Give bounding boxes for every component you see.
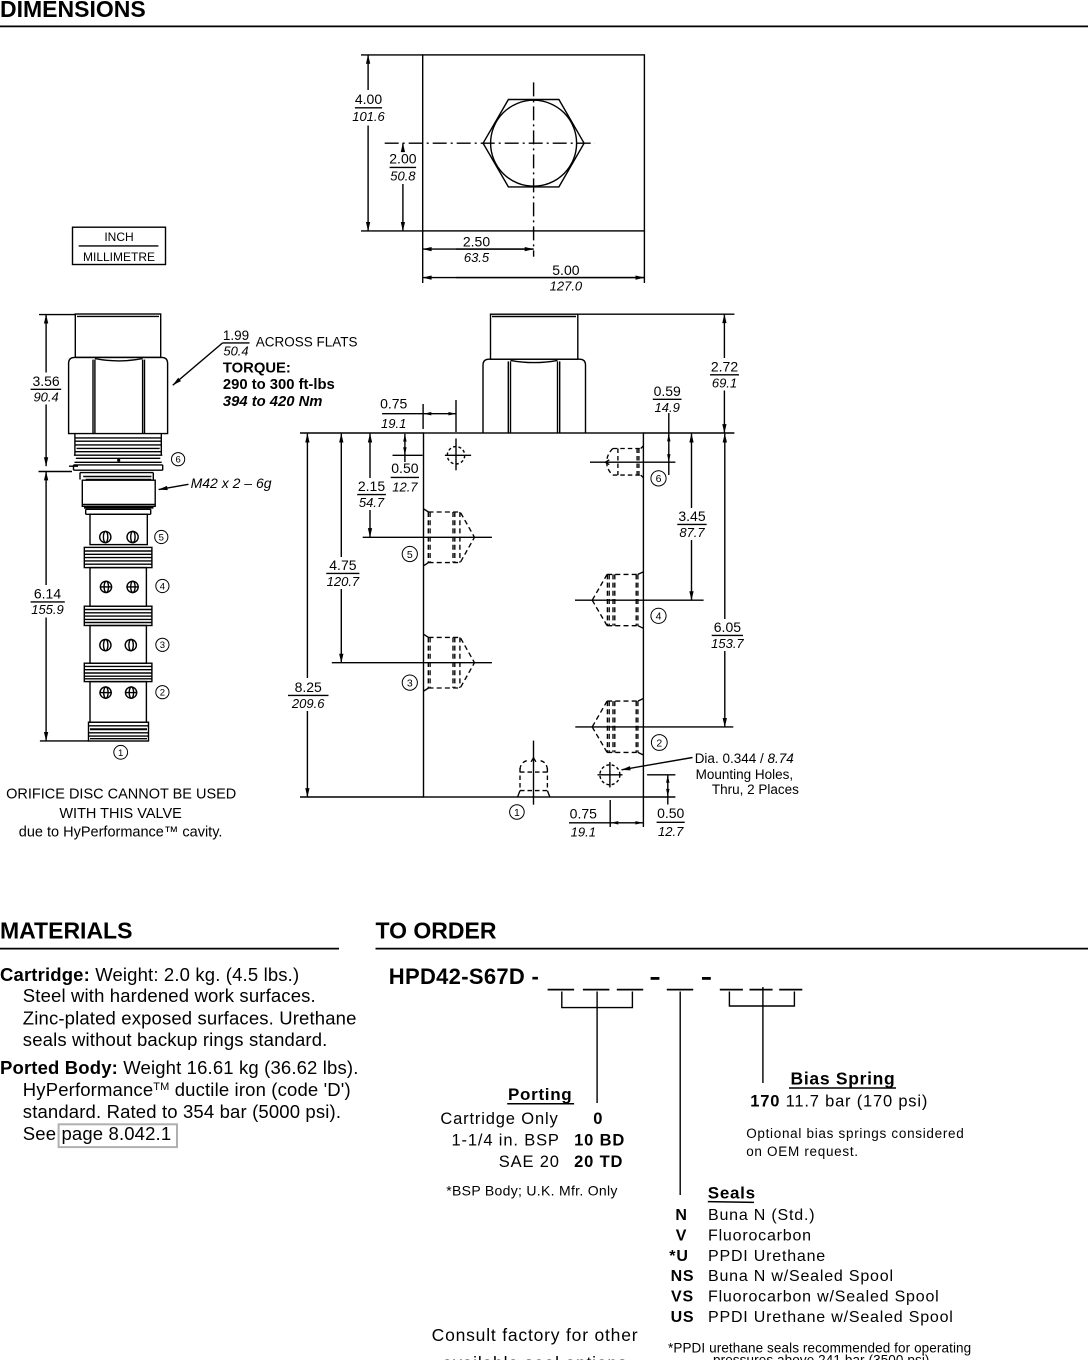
- cartridge ring group between 5 and 4: [84, 547, 152, 567]
- circled port numbers on cartridge: [114, 453, 185, 760]
- svg-text:0.59: 0.59: [654, 383, 681, 399]
- svg-text:1: 1: [118, 748, 123, 759]
- svg-text:NS: NS: [671, 1268, 695, 1285]
- svg-text:0: 0: [593, 1110, 603, 1128]
- cartridge port 2 section: [90, 682, 146, 723]
- extension line cap top right: [578, 313, 735, 315]
- dim 2.72/69.1 line: [723, 314, 725, 358]
- extension lines below block: [422, 231, 424, 283]
- extension line body top left: [300, 432, 424, 434]
- port 6 (right top, small): [607, 449, 641, 476]
- cartridge seal groove band: [76, 457, 160, 459]
- svg-text:due to HyPerformance™ cavity.: due to HyPerformance™ cavity.: [19, 824, 223, 840]
- svg-text:Ported Body: Weight 16.61 kg (: Ported Body: Weight 16.61 kg (36.62 lbs)…: [0, 1057, 359, 1078]
- cartridge port 3 section: [90, 626, 146, 664]
- svg-text:14.9: 14.9: [655, 400, 680, 415]
- svg-text:3: 3: [407, 677, 413, 689]
- top view: plug circle (across flats): [491, 100, 577, 186]
- svg-text:90.4: 90.4: [33, 390, 58, 405]
- svg-text:Optional bias springs consider: Optional bias springs considered: [746, 1126, 964, 1141]
- svg-text:0.75: 0.75: [380, 396, 407, 412]
- svg-text:SAE 20: SAE 20: [499, 1153, 560, 1171]
- svg-text:2.50: 2.50: [463, 233, 490, 249]
- svg-text:5.00: 5.00: [552, 262, 579, 278]
- body hex nut: [483, 359, 586, 433]
- svg-text:19.1: 19.1: [381, 416, 406, 431]
- svg-text:10 BD: 10 BD: [574, 1132, 625, 1150]
- svg-text:6.05: 6.05: [714, 619, 741, 635]
- port 5 (left, SAE plug): [428, 512, 474, 563]
- svg-text:M42 x 2 – 6g: M42 x 2 – 6g: [191, 475, 272, 491]
- svg-text:3.45: 3.45: [678, 508, 705, 524]
- cross-drilled holes port 5: [100, 531, 111, 542]
- port 3 (left, SAE plug): [428, 637, 474, 688]
- leader 1.99 ACROSS FLATS: [223, 342, 250, 344]
- cartridge nose rings: [89, 722, 149, 741]
- svg-text:Cartridge: Weight: 2.0 kg. (4.: Cartridge: Weight: 2.0 kg. (4.5 lbs.): [0, 964, 299, 985]
- bracket porting group: [562, 992, 633, 1008]
- body cap: [491, 314, 578, 359]
- cartridge dimensions and labels: [31, 315, 250, 741]
- extension line hole center level (for 0.50): [393, 454, 423, 456]
- dim 3.56/90.4 line: [45, 315, 47, 373]
- svg-text:ACROSS FLATS: ACROSS FLATS: [256, 334, 358, 349]
- dim 8.25/209.6 line: [306, 434, 308, 678]
- extension lines for 4.00 dim: [361, 54, 423, 56]
- port 4 (right, large): [592, 574, 638, 625]
- svg-text:12.7: 12.7: [392, 480, 418, 495]
- circled port numbers on body: [402, 471, 667, 820]
- svg-text:2.72: 2.72: [711, 358, 738, 374]
- svg-text:170 11.7 bar (170 psi): 170 11.7 bar (170 psi): [750, 1093, 928, 1111]
- port 2 center line: [575, 726, 733, 728]
- svg-text:69.1: 69.1: [712, 375, 737, 390]
- svg-text:6: 6: [656, 473, 662, 485]
- svg-text:MILLIMETRE: MILLIMETRE: [83, 250, 155, 264]
- svg-text:209.6: 209.6: [291, 696, 325, 711]
- svg-text:2.15: 2.15: [358, 478, 385, 494]
- dim 0.75/19.1 top: bar and line: [382, 413, 456, 415]
- svg-text:2.00: 2.00: [389, 151, 416, 167]
- svg-text:120.7: 120.7: [327, 574, 360, 589]
- svg-text:1.99: 1.99: [223, 328, 249, 343]
- seals option rows: [669, 1207, 953, 1326]
- cross-drilled holes port 4: [100, 581, 111, 592]
- dash separator 2: [702, 977, 711, 980]
- port 5 center line: [363, 536, 492, 538]
- svg-text:TORQUE:: TORQUE:: [223, 361, 291, 377]
- port 3 center line: [332, 662, 492, 664]
- M42 thread collar: [82, 480, 155, 506]
- rule under MATERIALS: [0, 948, 339, 950]
- port 1 center line: [533, 741, 535, 805]
- svg-text:DIMENSIONS: DIMENSIONS: [0, 0, 146, 22]
- svg-text:4.75: 4.75: [329, 557, 356, 573]
- svg-text:standard. Rated to 354 bar (50: standard. Rated to 354 bar (5000 psi).: [23, 1101, 341, 1122]
- svg-text:PPDI Urethane w/Sealed Spool: PPDI Urethane w/Sealed Spool: [708, 1309, 954, 1326]
- svg-text:6.14: 6.14: [34, 585, 61, 601]
- svg-text:Steel with hardened work surfa: Steel with hardened work surfaces.: [23, 985, 316, 1006]
- svg-text:INCH: INCH: [104, 230, 133, 244]
- svg-text:N: N: [675, 1207, 687, 1224]
- bracket bias spring group: [729, 992, 794, 1007]
- svg-text:54.7: 54.7: [359, 495, 385, 510]
- svg-text:1: 1: [514, 807, 520, 819]
- cartridge port 5 section: [90, 514, 147, 544]
- svg-text:WITH THIS VALVE: WITH THIS VALVE: [59, 806, 182, 822]
- cartridge ring group between 4 and 3: [84, 606, 152, 625]
- svg-text:VS: VS: [671, 1289, 694, 1306]
- svg-text:155.9: 155.9: [31, 602, 64, 617]
- porting rows: [440, 1110, 625, 1171]
- dim 0.50/12.7 left line: [404, 434, 406, 462]
- dim 2.15/54.7 line: [369, 434, 371, 478]
- dimension 5.00/127.0 line with arrows: [423, 277, 645, 279]
- dimension 4.00/101.6 line with arrows: [367, 55, 369, 90]
- svg-text:63.5: 63.5: [464, 250, 490, 265]
- svg-text:2: 2: [656, 737, 662, 749]
- dim 6.14/155.9 line: [45, 472, 47, 586]
- body dimension texts: [291, 358, 745, 839]
- body outline: [424, 433, 644, 797]
- svg-text:0.50: 0.50: [391, 460, 418, 476]
- cartridge port 4 section: [90, 568, 146, 607]
- svg-text:Mounting Holes,: Mounting Holes,: [696, 767, 794, 782]
- svg-text:*U: *U: [669, 1248, 688, 1265]
- svg-text:TO ORDER: TO ORDER: [376, 918, 497, 944]
- svg-text:87.7: 87.7: [679, 525, 705, 540]
- dim 0.59/14.9 line: [653, 398, 682, 400]
- leader M42 x 2 - 6g: [159, 484, 189, 489]
- dim 3.45/87.7 line: [691, 434, 693, 508]
- cartridge ring group between 3 and 2: [84, 663, 152, 681]
- svg-text:0.75: 0.75: [570, 805, 597, 821]
- port 6 center line: [590, 461, 675, 463]
- svg-text:HPD42-S67D -: HPD42-S67D -: [389, 964, 539, 989]
- dim 6.05/153.7 line: [724, 434, 726, 619]
- svg-text:HyPerformanceTM ductile iron (: HyPerformanceTM ductile iron (code 'D'): [23, 1079, 351, 1100]
- svg-text:Dia. 0.344 / 8.74: Dia. 0.344 / 8.74: [695, 751, 794, 766]
- order code underscores group 1: [548, 989, 575, 991]
- svg-text:1-1/4 in. BSP: 1-1/4 in. BSP: [452, 1132, 560, 1150]
- svg-text:5: 5: [407, 549, 413, 561]
- extension line body bottom right: [643, 796, 675, 798]
- order code underscore group 2: [667, 989, 693, 991]
- extension line body top right: [643, 432, 734, 434]
- svg-text:*BSP Body; U.K. Mfr. Only: *BSP Body; U.K. Mfr. Only: [446, 1182, 617, 1198]
- svg-text:Fluorocarbon w/Sealed Spool: Fluorocarbon w/Sealed Spool: [708, 1289, 940, 1306]
- svg-text:4.00: 4.00: [355, 91, 382, 107]
- svg-text:Seals: Seals: [708, 1184, 756, 1203]
- svg-text:2: 2: [160, 688, 165, 699]
- svg-text:101.6: 101.6: [352, 109, 385, 124]
- cartridge top cap: [75, 314, 160, 357]
- svg-text:19.1: 19.1: [571, 824, 596, 839]
- svg-text:MATERIALS: MATERIALS: [0, 918, 132, 944]
- dim 6.14/155.9 extension lines: [39, 471, 73, 473]
- dim 3.56/90.4 extension lines: [39, 314, 75, 316]
- center dot on seal band: [117, 459, 120, 462]
- svg-text:8.25: 8.25: [295, 679, 322, 695]
- svg-text:3: 3: [160, 640, 165, 651]
- svg-text:PPDI Urethane: PPDI Urethane: [708, 1248, 826, 1265]
- mounting hole top-left: [447, 447, 464, 464]
- order code underscores group 3: [720, 989, 743, 991]
- svg-text:153.7: 153.7: [711, 636, 744, 651]
- port 2 (right bottom, large): [592, 701, 638, 752]
- port 1 (bottom, small): [520, 760, 547, 790]
- dash separator 1: [651, 977, 660, 980]
- top view: vertical center line: [533, 82, 535, 256]
- svg-text:Buna N w/Sealed Spool: Buna N w/Sealed Spool: [708, 1268, 894, 1285]
- dimension 2.00/50.8 line with arrows: [402, 143, 404, 150]
- cross-drilled holes port 2: [100, 687, 111, 698]
- svg-text:5: 5: [159, 532, 164, 543]
- cartridge thread rings: [74, 434, 76, 456]
- svg-text:4: 4: [160, 581, 165, 592]
- svg-text:Porting: Porting: [508, 1085, 572, 1104]
- svg-text:50.8: 50.8: [390, 169, 416, 184]
- svg-text:4: 4: [656, 611, 662, 623]
- note ORIFICE DISC: [6, 786, 236, 840]
- extension line body bottom left: [300, 796, 424, 798]
- svg-text:20 TD: 20 TD: [574, 1153, 623, 1171]
- svg-text:ORIFICE DISC CANNOT BE USED: ORIFICE DISC CANNOT BE USED: [6, 786, 236, 802]
- svg-text:Buna N (Std.): Buna N (Std.): [708, 1207, 815, 1224]
- svg-text:US: US: [671, 1309, 695, 1326]
- mounting hole bottom-right: [600, 765, 620, 785]
- dim 0.75/19.1 bottom line: [569, 822, 643, 824]
- inside arrow pairs (0.50 left, 0.59, 0.50 bottom, 0.75s): [403, 412, 670, 825]
- svg-text:seals without backup rings sta: seals without backup rings standard.: [23, 1029, 328, 1050]
- svg-text:50.4: 50.4: [223, 344, 248, 359]
- dimension 2.50/63.5 line with arrows: [423, 248, 534, 250]
- top view: horizontal center line: [385, 142, 595, 144]
- cartridge hex nut: [69, 357, 168, 433]
- svg-text:6: 6: [175, 455, 180, 466]
- rule under TO ORDER: [376, 948, 1088, 950]
- svg-text:Thru, 2 Places: Thru, 2 Places: [712, 782, 799, 797]
- svg-text:3.56: 3.56: [32, 373, 59, 389]
- heading rule under DIMENSIONS: [0, 25, 1088, 27]
- svg-text:See page 8.042.1: See page 8.042.1: [23, 1123, 171, 1144]
- svg-text:available seal options: available seal options: [443, 1353, 628, 1360]
- svg-text:Consult factory for other: Consult factory for other: [432, 1325, 639, 1345]
- INCH/MILLIMETRE box: [73, 227, 166, 264]
- svg-text:394 to 420 Nm: 394 to 420 Nm: [223, 394, 323, 410]
- top view: valve body block outline: [423, 55, 645, 231]
- page link box: [59, 1124, 177, 1147]
- body ports (dashed hidden lines): [424, 446, 644, 797]
- svg-text:12.7: 12.7: [658, 824, 684, 839]
- dim 4.75/120.7 line: [340, 434, 342, 557]
- svg-text:on OEM request.: on OEM request.: [746, 1144, 859, 1159]
- svg-text:pressures above 241 bar (3500: pressures above 241 bar (3500 psi): [713, 1352, 930, 1360]
- leader to mounting hole (Dia note): [622, 758, 693, 770]
- svg-text:290 to 300 ft-lbs: 290 to 300 ft-lbs: [223, 377, 335, 393]
- svg-text:Fluorocarbon: Fluorocarbon: [708, 1227, 812, 1244]
- svg-text:V: V: [676, 1227, 687, 1244]
- stem seals group: [679, 992, 681, 1196]
- port 4 center line: [575, 599, 704, 601]
- dim 0.50/12.7 bottom-right line: [667, 775, 669, 805]
- cartridge neck below hex: [80, 472, 153, 474]
- svg-text:Cartridge Only: Cartridge Only: [440, 1110, 558, 1128]
- svg-text:0.50: 0.50: [657, 805, 684, 821]
- svg-text:Zinc-plated exposed surfaces.: Zinc-plated exposed surfaces. Urethane: [23, 1008, 357, 1029]
- top view: hex plug hexagon: [483, 100, 584, 187]
- svg-text:Bias Spring: Bias Spring: [791, 1068, 896, 1088]
- svg-text:127.0: 127.0: [550, 278, 583, 293]
- cross-drilled holes port 3: [100, 640, 111, 651]
- top view dimension texts: [83, 91, 583, 293]
